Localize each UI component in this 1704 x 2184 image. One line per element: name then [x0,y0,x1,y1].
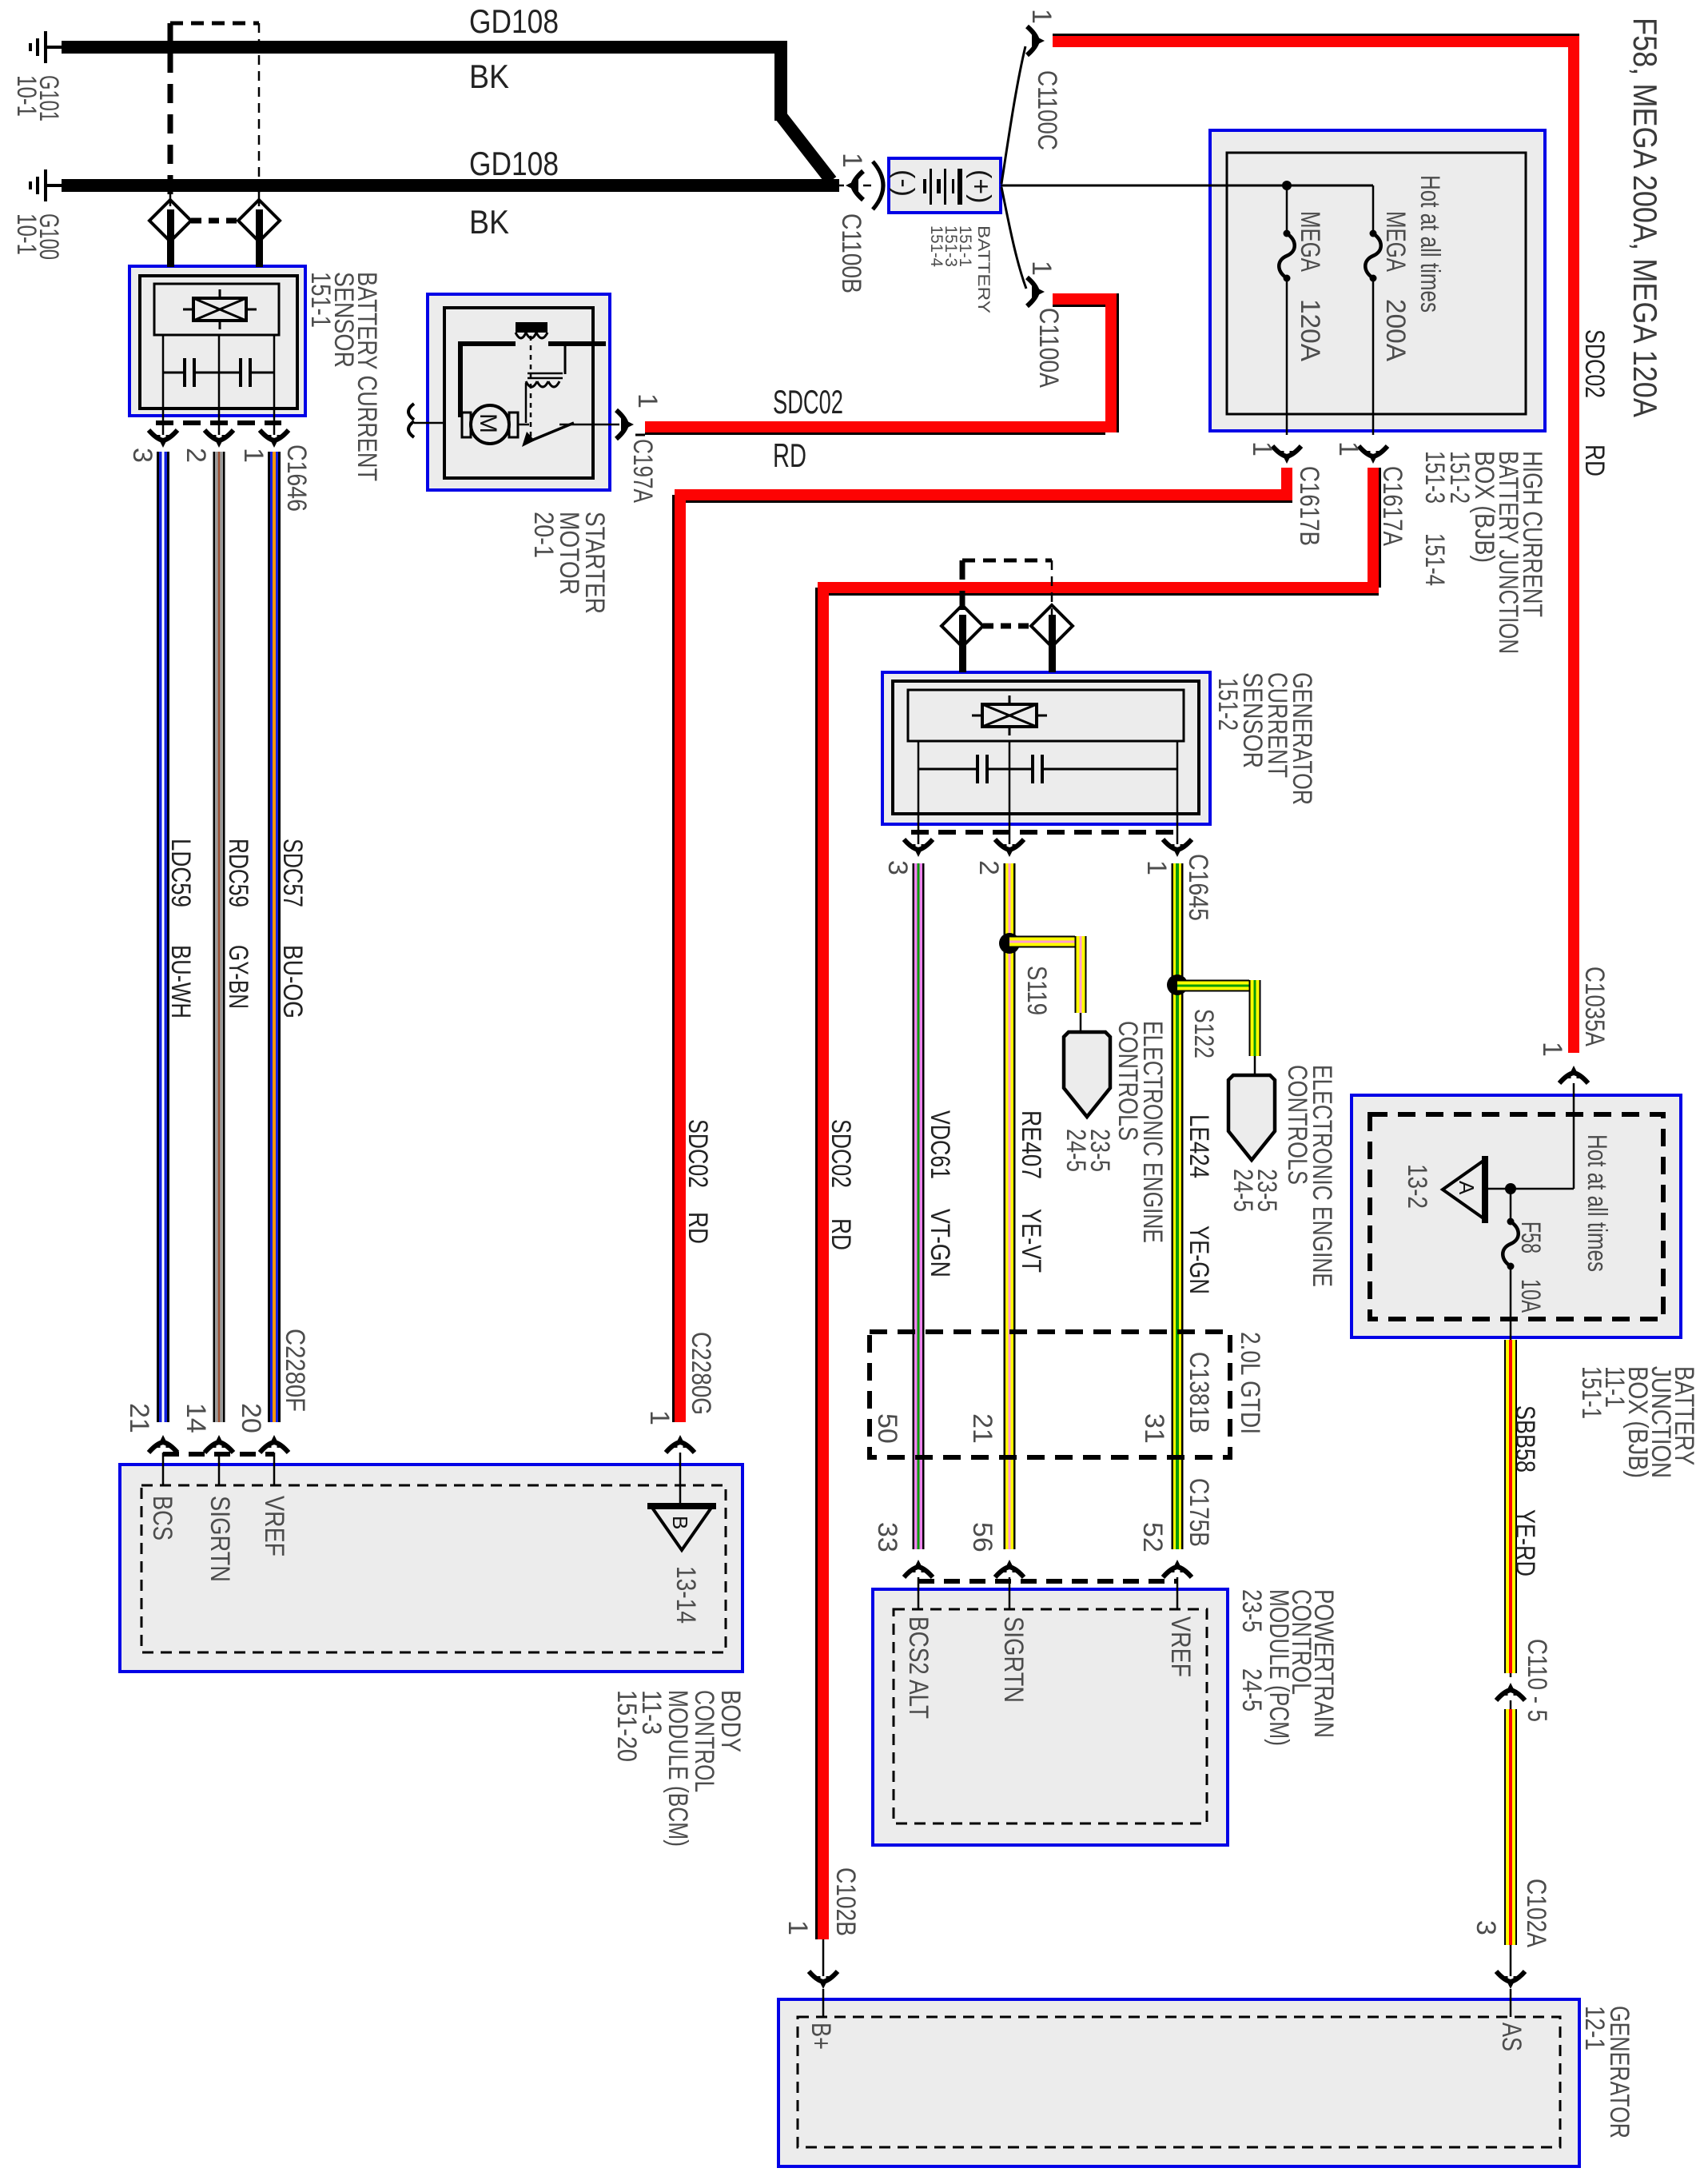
label C2280G [686,1332,716,1415]
connector C1646 pin 1 arrow [260,416,289,448]
battery current sensor internals [140,276,297,416]
label C197A [627,439,658,503]
wire SDC02 RD (C1617A to generator C102B) [815,468,1381,1939]
label GD108 BK (lower) [469,145,559,241]
connector C2280G arrow [666,1435,695,1508]
symbol triangle A (BJB, to 13-2) [1443,1156,1485,1223]
svg-text:VT-GN: VT-GN [925,1209,955,1277]
svg-text:SDC02: SDC02 [1579,329,1610,398]
connector C102B arrow [809,1939,838,2017]
svg-text:C102B: C102B [830,1867,861,1936]
svg-text:C110 - 5: C110 - 5 [1522,1639,1552,1722]
svg-text:C2280G: C2280G [686,1332,716,1415]
pin numbers 3 2 1 (C1646) [127,448,269,463]
pin label B+ (generator) [806,2023,836,2050]
fuse MEGA 200A [1365,185,1381,435]
label RE407 YE-VT [1016,1110,1046,1273]
svg-text:2.0L GTDI: 2.0L GTDI [1235,1332,1265,1434]
connector C1100A arrow [1027,277,1045,306]
svg-text:C197A: C197A [627,439,658,503]
label C1617B [1294,466,1324,546]
wire RDC59 GY-BN [213,452,225,1422]
svg-text:F58: F58 [1515,1222,1546,1253]
svg-text:C1617A: C1617A [1377,466,1407,546]
svg-text:Hot at all times: Hot at all times [1582,1134,1612,1272]
svg-text:151-4: 151-4 [1419,533,1450,586]
wire shield drain dashed (left, battery sensor) [168,23,173,197]
svg-text:151-1: 151-1 [305,272,336,328]
starter motor box [428,294,610,490]
svg-text:C1617B: C1617B [1294,466,1324,546]
svg-text:151-2: 151-2 [1212,678,1243,731]
connector C1645 pin 3 arrow [904,824,933,857]
module generator box [778,1999,1579,2166]
label POWERTRAIN CONTROL MODULE (PCM) 23-5 24-5 [1236,1589,1339,1746]
svg-text:Hot at all times: Hot at all times [1415,175,1445,313]
generator current sensor internals [893,681,1199,824]
wire LDC59 BU-WH [157,452,169,1422]
svg-text:SDC02: SDC02 [683,1119,713,1188]
svg-text:13-2: 13-2 [1402,1164,1432,1209]
connector arrow VREF pin 52 [1163,1560,1192,1609]
module battery junction box (F58) box [1352,1095,1681,1337]
connector arrow SIGRTN pin 14 [205,1435,233,1485]
label ELECTRONIC ENGINE CONTROLS 23-5 24-5 (S119) [1061,1021,1168,1243]
svg-text:C102A: C102A [1521,1879,1551,1947]
shield ELECTRONIC ENGINE CONTROLS (S122) [1228,1075,1275,1160]
svg-text:BU-OG: BU-OG [277,945,308,1018]
pin numbers 33 56 52 (PCM) [872,1522,1168,1552]
svg-text:(+): (+) [965,169,996,204]
label SDC02 RD (wire to generator) [826,1119,856,1250]
wire SBB58 YE-RD (BJB to C110) [1504,1340,1517,1673]
label S119 [1021,966,1052,1015]
svg-text:(-): (-) [889,169,919,197]
svg-text:C175B: C175B [1184,1478,1214,1547]
svg-text:C1381B: C1381B [1184,1352,1214,1433]
label 2.0L GTDI [1235,1332,1265,1434]
svg-text:LE424: LE424 [1184,1114,1214,1178]
svg-text:BCS2 ALT: BCS2 ALT [903,1616,934,1719]
connector arrow SIGRTN pin 56 [995,1560,1024,1609]
pin number 1 (C1617A) [1333,441,1364,456]
svg-text:A: A [1455,1181,1479,1195]
wire SBB58 YE-RD (C110 to C102A) [1504,1709,1517,1945]
pin number 1 (C197A) [632,393,663,409]
svg-text:56: 56 [967,1522,997,1552]
module high current BJB box [1210,130,1545,431]
module PCM box [873,1589,1228,1845]
wire GD108 BK (G101 to battery, with bend) [62,41,831,181]
pin number 1 (C1100B) [837,153,867,168]
svg-text:1: 1 [644,1410,675,1425]
label VDC61 VT-GN [925,1110,955,1277]
connector C1645 pin 2 arrow [995,824,1024,857]
wire RE407 YE-VT branch (S119 to shield) [1009,936,1087,1033]
connector arrow BCS2 ALT pin 33 [904,1560,933,1609]
label BATTERY JUNCTION BOX (BJB) 11-1 151-1 [1576,1366,1699,1478]
pin number 1 (C1035A) [1537,1042,1567,1057]
svg-text:C1645: C1645 [1183,854,1213,921]
label C1645 [1183,854,1213,921]
label C1100C [1032,70,1062,150]
label BODY CONTROL MODULE (BCM) 11-3 151-20 [611,1690,746,1847]
label MEGA 200A [1380,211,1411,361]
svg-text:21: 21 [124,1403,154,1433]
svg-text:CONTROLS: CONTROLS [1113,1021,1143,1141]
svg-text:SBB58: SBB58 [1510,1405,1540,1473]
svg-text:C2280F: C2280F [280,1329,310,1412]
node twisted-pair symbol right (generator sensor) [1031,605,1073,672]
connector C1645 pin 1 arrow [1163,824,1192,857]
label S122 [1188,1009,1219,1058]
label MEGA 120A [1295,211,1325,361]
label G101 10-1 [11,75,64,122]
label F58 10A [1515,1222,1546,1313]
svg-text:BCS: BCS [147,1496,177,1540]
svg-text:SDC02: SDC02 [773,383,843,420]
svg-text:1: 1 [1247,441,1277,456]
connector C1100C arrow [1027,26,1045,55]
label STARTER MOTOR 20-1 [528,512,610,614]
svg-text:M: M [475,413,501,433]
pin number 1 (C1617B) [1247,441,1277,456]
svg-text:B+: B+ [806,2023,836,2050]
svg-text:SDC02: SDC02 [826,1119,856,1188]
svg-text:2: 2 [973,860,1004,875]
label C2280F [280,1329,310,1412]
svg-text:3: 3 [127,448,157,463]
dashed connector line (PCM) [918,1579,1177,1584]
battery box [889,158,1001,213]
svg-text:200A: 200A [1380,299,1411,361]
svg-text:24-5: 24-5 [1061,1129,1091,1172]
label C1035A [1579,966,1610,1046]
svg-text:SDC57: SDC57 [277,839,308,907]
label C110 - 5 [1522,1639,1552,1722]
svg-text:120A: 120A [1295,299,1325,361]
splice S119 [999,933,1020,954]
connector C1646 pin 3 arrow [149,416,177,448]
label C102A [1521,1879,1551,1947]
label BATTERY CURRENT SENSOR 151-1 [305,272,382,481]
svg-text:1: 1 [782,1920,813,1935]
pin labels BCS2 ALT SIGRTN VREF (PCM) [903,1616,1196,1719]
label GENERATOR 12-1 [1579,2006,1634,2138]
connector C1646 pin 2 arrow [205,416,233,448]
svg-text:CONTROLS: CONTROLS [1282,1065,1312,1185]
wire dashed between twisted-pair symbols (generator sensor) [983,624,1030,629]
svg-text:C1646: C1646 [281,444,312,512]
wire dashed link top (battery sensor) [170,22,259,26]
svg-text:C1100A: C1100A [1033,308,1064,388]
svg-text:GD108: GD108 [469,145,559,182]
wire LE424 YE-GN branch (S122 to shield) [1177,980,1261,1076]
label SDC02 RD (wire to BCM) [683,1119,713,1244]
svg-text:RDC59: RDC59 [223,839,253,907]
battery current sensor box [129,266,305,416]
label GD108 BK (upper) [469,2,559,95]
svg-text:20-1: 20-1 [528,512,559,558]
label C102B [830,1867,861,1936]
svg-text:RE407: RE407 [1016,1110,1046,1179]
svg-text:MEGA: MEGA [1380,211,1411,272]
label SDC02 RD (right vertical) [1579,329,1610,476]
svg-text:RD: RD [1579,444,1610,476]
svg-text:MODULE (PCM): MODULE (PCM) [1264,1589,1294,1746]
svg-text:S119: S119 [1021,966,1052,1015]
wire SDC02 RD (C1617B to BCM C2280G) [672,468,1292,1422]
battery symbol [889,169,996,205]
label RDC59 GY-BN [223,839,253,1009]
svg-text:VREF: VREF [259,1496,289,1556]
svg-text:C1035A: C1035A [1579,966,1610,1046]
svg-text:SIGRTN: SIGRTN [205,1496,235,1582]
svg-text:VREF: VREF [1165,1616,1196,1677]
splice S122 [1167,974,1188,995]
connector C1646 dashed line [156,420,281,425]
svg-text:13-14: 13-14 [671,1566,701,1624]
svg-text:C1100C: C1100C [1032,70,1062,150]
connector C102A arrow [1496,1945,1525,2017]
label C1646 [281,444,312,512]
svg-text:24-5: 24-5 [1236,1668,1267,1712]
svg-text:24-5: 24-5 [1228,1169,1258,1212]
svg-text:21: 21 [967,1413,997,1444]
connector C197A arrow [593,410,634,439]
wire SDC02 RD (battery C1100C to BJB C1035A) [1053,34,1579,1053]
label LDC59 BU-WH [165,839,196,1018]
wire RE407 YE-VT [1004,863,1016,1549]
svg-text:MEGA: MEGA [1295,211,1325,272]
flexible ground lead (starter motor) [408,404,445,437]
label C1100A [1033,308,1064,388]
module 2.0L GTDI dashed box [870,1332,1230,1457]
pin labels BCS SIGRTN VREF (BCM) [147,1496,289,1582]
svg-text:2: 2 [181,448,211,463]
label C1100B [836,213,866,293]
svg-text:151-4: 151-4 [927,225,946,267]
connector arrow VREF pin 20 [260,1435,289,1485]
connector arrow BCS pin 21 [149,1435,177,1485]
ground G101 [30,31,62,63]
svg-text:31: 31 [1139,1413,1169,1444]
svg-text:LDC59: LDC59 [165,839,196,907]
svg-text:BK: BK [469,203,509,241]
svg-text:3: 3 [882,860,913,875]
svg-text:50: 50 [872,1413,902,1444]
node junction dot (F58) [1485,1183,1516,1194]
label Hot at all times (BJB) [1415,175,1445,313]
pin number 1 (C102B) [782,1920,813,1935]
label Hot at all times (F58 BJB) [1582,1134,1612,1272]
wire twisted dashed (generator sensor right) [1051,560,1053,648]
svg-text:BU-WH: BU-WH [165,945,196,1018]
svg-text:1: 1 [1026,261,1057,276]
connector C1617B arrow [1272,446,1301,464]
svg-text:YE-RD: YE-RD [1510,1509,1540,1576]
module BCM box [120,1465,743,1672]
svg-text:33: 33 [872,1522,902,1552]
label C1381B [1184,1352,1214,1433]
svg-text:YE-GN: YE-GN [1184,1226,1214,1294]
node twisted-pair symbol left (generator sensor) [942,605,983,672]
dashed connector line (BCM) [163,1452,274,1457]
svg-text:10-1: 10-1 [11,213,42,255]
svg-text:BATTERY: BATTERY [974,225,993,313]
svg-text:151-1: 151-1 [1576,1366,1606,1419]
svg-text:1: 1 [238,448,269,463]
label GENERATOR CURRENT SENSOR 151-2 [1212,672,1317,805]
label ELECTRONIC ENGINE CONTROLS 23-5 24-5 (S122) [1228,1065,1337,1287]
wire LE424 YE-GN [1172,863,1184,1549]
fuse MEGA 120A [1279,185,1295,435]
connector C1617A arrow [1359,446,1387,464]
svg-text:1: 1 [1537,1042,1567,1057]
shield ELECTRONIC ENGINE CONTROLS (S119) [1064,1032,1110,1117]
label SBB58 YE-RD [1510,1405,1540,1576]
node twisted-pair symbol right (battery sensor) [238,192,280,267]
label G100 10-1 [11,213,64,260]
svg-text:1: 1 [1026,9,1057,24]
svg-text:YE-VT: YE-VT [1016,1209,1046,1273]
wire VDC61 VT-GN [913,863,925,1549]
label 13-14 [671,1566,701,1624]
label BATTERY 151-1 151-3 151-4 [927,225,993,313]
wire GD108 BK (G100 to battery) [62,179,839,192]
wire dashed link top (generator sensor) [962,559,1052,563]
svg-text:B: B [668,1516,692,1529]
node battery positive branches [1001,46,1373,289]
pin number 3 (C102A) [1471,1920,1501,1935]
svg-text:SIGRTN: SIGRTN [998,1616,1029,1703]
connector C1645 dashed line [911,830,1183,835]
pin number 1 (C1100A) [1026,261,1057,276]
svg-text:12-1: 12-1 [1579,2006,1610,2050]
title F58, MEGA 200A, MEGA 120A [1626,18,1664,417]
fuse F58 10A [1503,1189,1519,1340]
svg-text:14: 14 [181,1403,211,1433]
svg-text:52: 52 [1137,1522,1168,1552]
svg-text:1: 1 [1141,860,1172,875]
svg-text:AS: AS [1496,2023,1527,2051]
svg-text:1: 1 [632,393,663,409]
svg-text:1: 1 [837,153,867,168]
svg-text:RD: RD [826,1218,856,1250]
pin number 1 (C2280G) [644,1410,675,1425]
svg-text:151-3: 151-3 [1419,451,1450,504]
pin label AS (generator) [1496,2023,1527,2051]
wire twisted dashed (right, battery sensor) [258,23,261,197]
label C175B [1184,1478,1214,1547]
svg-text:10A: 10A [1515,1279,1546,1313]
wire shield drain dashed (generator sensor left) [960,560,965,648]
svg-text:F58, MEGA 200A, MEGA 120A: F58, MEGA 200A, MEGA 120A [1626,18,1664,417]
connector C110 arrow [1496,1673,1525,1709]
label HIGH CURRENT BATTERY JUNCTION BOX (BJB) 151-2 151-3 151-4 [1419,451,1547,654]
label 13-2 [1402,1164,1432,1209]
label C1617A [1377,466,1407,546]
svg-text:S122: S122 [1188,1009,1219,1058]
svg-text:GD108: GD108 [469,2,559,40]
label SDC02 RD (starter feed) [773,383,843,474]
wire SDC57 BU-OG [268,452,281,1422]
svg-text:C1100B: C1100B [836,213,866,293]
svg-text:BK: BK [469,58,509,95]
label LE424 YE-GN [1184,1114,1214,1294]
svg-text:VDC61: VDC61 [925,1110,955,1179]
node junction dot (BJB) [1282,181,1292,190]
connector C1035A arrow and lead [1511,1066,1588,1189]
pin numbers 3 2 1 (C1645) [882,860,1172,875]
connector C1100B [835,161,883,209]
symbol triangle B (BCM, to 13-14) [647,1506,716,1550]
pin number 1 (C1100C) [1026,9,1057,24]
svg-text:RD: RD [773,436,806,474]
starter motor internals [444,308,606,478]
svg-text:GY-BN: GY-BN [223,945,253,1009]
svg-text:1: 1 [1333,441,1364,456]
svg-text:RD: RD [683,1212,713,1244]
svg-text:151-20: 151-20 [611,1690,642,1762]
label SDC57 BU-OG [277,839,308,1018]
pin numbers 50 21 31 (C1381B) [872,1413,1169,1444]
svg-text:20: 20 [236,1403,266,1433]
generator current sensor box [882,672,1210,824]
svg-text:23-5: 23-5 [1236,1589,1267,1632]
ground G100 [30,169,62,201]
wire dashed between twisted-pair symbols (battery sensor) [191,218,238,224]
pin numbers 21 14 20 (BCM) [124,1403,266,1433]
svg-text:10-1: 10-1 [11,75,42,117]
svg-text:3: 3 [1471,1920,1501,1935]
wire SDC02 RD (battery C1100A to starter C197A) [635,293,1119,435]
node twisted-pair symbol left (battery sensor) [149,192,191,267]
